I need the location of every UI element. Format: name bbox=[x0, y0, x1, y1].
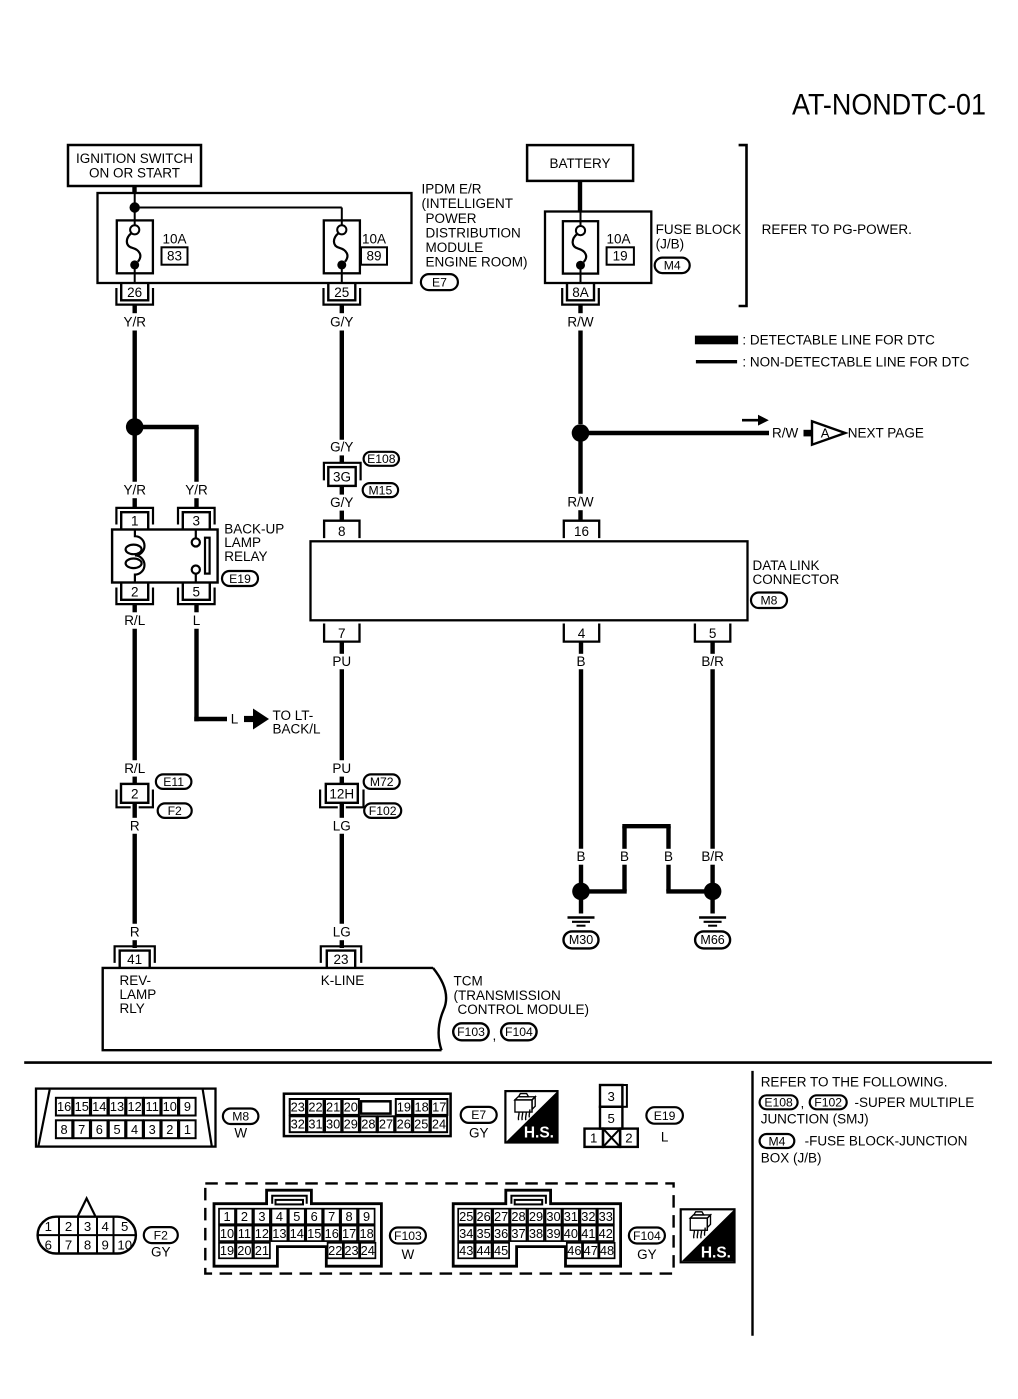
connector oval F2 bbox=[158, 803, 192, 818]
svg-text:REFER TO PG-POWER.: REFER TO PG-POWER. bbox=[762, 222, 912, 237]
ignition switch box bbox=[68, 145, 201, 186]
wire B/R to ground dot bbox=[710, 865, 714, 885]
svg-text:E7: E7 bbox=[471, 1108, 486, 1122]
wire L elbow horizontal bbox=[194, 717, 227, 721]
svg-text:23: 23 bbox=[344, 1243, 358, 1258]
svg-text:LAMP: LAMP bbox=[120, 987, 157, 1002]
svg-text:8: 8 bbox=[61, 1122, 68, 1137]
svg-text:K-LINE: K-LINE bbox=[321, 973, 365, 988]
svg-text:19: 19 bbox=[220, 1243, 234, 1258]
relay terminal 5 bbox=[178, 583, 215, 605]
ground oval M30 bbox=[564, 931, 599, 948]
wire ignition switch to IPDM bbox=[132, 186, 136, 194]
connector oval E19 bbox=[222, 571, 258, 586]
wire LG into terminal 23 bbox=[340, 940, 344, 948]
data link connector box bbox=[311, 541, 748, 620]
svg-text:REV-: REV- bbox=[120, 973, 152, 988]
svg-text:Y/R: Y/R bbox=[123, 483, 146, 498]
connector M8 16-pin drawing bbox=[36, 1089, 216, 1147]
svg-text:G/Y: G/Y bbox=[330, 440, 353, 455]
svg-text:R/W: R/W bbox=[772, 426, 799, 441]
wire G/Y into terminal 8 bbox=[340, 511, 344, 522]
connector E19 socket drawing bbox=[600, 1085, 622, 1107]
off-page triangle A bbox=[812, 421, 845, 444]
svg-text:19: 19 bbox=[613, 248, 628, 263]
svg-text:,: , bbox=[493, 1028, 497, 1043]
svg-text:-SUPER MULTIPLE: -SUPER MULTIPLE bbox=[855, 1095, 975, 1110]
svg-text:GY: GY bbox=[637, 1247, 657, 1262]
inline connector E11/F2 pin 2 bbox=[117, 784, 153, 807]
svg-text:12H: 12H bbox=[329, 786, 354, 801]
svg-text:M15: M15 bbox=[369, 483, 393, 497]
svg-text:GY: GY bbox=[151, 1245, 171, 1260]
svg-text:3: 3 bbox=[149, 1122, 156, 1137]
wire Y/R branch horizontal bbox=[135, 425, 199, 429]
svg-text:E108: E108 bbox=[764, 1096, 793, 1110]
svg-text:47: 47 bbox=[584, 1243, 598, 1258]
svg-text:F2: F2 bbox=[154, 1228, 168, 1242]
svg-text:13: 13 bbox=[272, 1226, 286, 1241]
svg-text:Y/R: Y/R bbox=[123, 315, 146, 330]
svg-text:37: 37 bbox=[511, 1226, 525, 1241]
svg-text:23: 23 bbox=[333, 952, 348, 967]
svg-text:W: W bbox=[234, 1126, 247, 1141]
svg-text:E19: E19 bbox=[654, 1109, 676, 1123]
svg-text:10: 10 bbox=[117, 1238, 132, 1253]
svg-text:32: 32 bbox=[291, 1117, 305, 1132]
svg-text:G/Y: G/Y bbox=[330, 495, 353, 510]
wire B/R down bbox=[710, 669, 714, 849]
svg-text:1: 1 bbox=[590, 1131, 597, 1146]
terminal 16 of DLC bbox=[564, 521, 599, 539]
svg-text:31: 31 bbox=[564, 1209, 578, 1224]
svg-text:F2: F2 bbox=[168, 804, 182, 818]
wire L down bbox=[194, 629, 198, 722]
svg-text:(TRANSMISSION: (TRANSMISSION bbox=[454, 988, 561, 1003]
connector F2 10-pin drawing bbox=[38, 1217, 136, 1254]
svg-text:5: 5 bbox=[113, 1122, 120, 1137]
svg-text:33: 33 bbox=[599, 1209, 613, 1224]
svg-text:(INTELLIGENT: (INTELLIGENT bbox=[422, 196, 514, 211]
terminal 23 bbox=[321, 946, 361, 968]
svg-text:,: , bbox=[801, 1095, 805, 1110]
wire G/Y down bbox=[340, 331, 344, 440]
svg-text:7: 7 bbox=[78, 1122, 85, 1137]
svg-text:44: 44 bbox=[476, 1243, 490, 1258]
svg-text:L: L bbox=[193, 613, 201, 628]
legend detectable bar bbox=[695, 336, 738, 345]
svg-text:31: 31 bbox=[308, 1117, 322, 1132]
svg-text:RLY: RLY bbox=[120, 1001, 145, 1016]
wire L from relay pin 5 bbox=[194, 604, 198, 612]
svg-text:3: 3 bbox=[608, 1089, 615, 1104]
wire fuse 19 to terminal 8A bbox=[580, 268, 582, 283]
svg-text:25: 25 bbox=[459, 1209, 473, 1224]
wire R/W into terminal 16 bbox=[578, 510, 582, 521]
SMJ connector 3G bracket bbox=[324, 463, 361, 481]
svg-text:1: 1 bbox=[45, 1219, 52, 1234]
junction dot Y/R bbox=[126, 418, 144, 436]
wire B/R from terminal 5 bbox=[710, 642, 714, 654]
svg-text:30: 30 bbox=[546, 1209, 560, 1224]
battery box bbox=[527, 145, 633, 181]
connector F103 24-pin drawing bbox=[214, 1190, 381, 1266]
svg-text:11: 11 bbox=[146, 1099, 159, 1114]
svg-text:MODULE: MODULE bbox=[426, 240, 484, 255]
svg-text:5: 5 bbox=[121, 1219, 128, 1234]
wire R/L from relay pin 2 bbox=[132, 604, 136, 612]
fuse 83 box bbox=[117, 220, 153, 273]
svg-text:PU: PU bbox=[332, 654, 351, 669]
svg-text:NEXT PAGE: NEXT PAGE bbox=[848, 426, 924, 441]
svg-text:9: 9 bbox=[102, 1238, 109, 1253]
wire R down bbox=[132, 834, 136, 924]
terminal 4 of DLC bbox=[564, 624, 599, 642]
wire PU down bbox=[340, 669, 344, 760]
connector oval M8 bottom bbox=[223, 1109, 259, 1125]
SMJ connector 3G box bbox=[328, 467, 355, 486]
fuse 19 box bbox=[563, 221, 598, 273]
connector oval E7 bottom bbox=[461, 1107, 497, 1123]
svg-text:F104: F104 bbox=[633, 1229, 661, 1243]
bridge wire right to dot bbox=[666, 865, 670, 892]
svg-text:9: 9 bbox=[184, 1099, 191, 1114]
svg-text:8: 8 bbox=[338, 524, 346, 539]
bridge wire right down bbox=[666, 826, 670, 849]
svg-text:8: 8 bbox=[84, 1238, 91, 1253]
wire PU into connector 12H bbox=[340, 777, 344, 785]
wire Y/R branch down bbox=[194, 427, 198, 482]
relay coil bbox=[135, 530, 145, 583]
svg-text:ENGINE ROOM): ENGINE ROOM) bbox=[426, 255, 528, 270]
svg-text:M4: M4 bbox=[769, 1134, 786, 1148]
svg-text:AT-NONDTC-01: AT-NONDTC-01 bbox=[792, 89, 986, 122]
svg-text:41: 41 bbox=[127, 952, 142, 967]
terminal 41 bbox=[115, 946, 155, 968]
svg-text:13: 13 bbox=[110, 1099, 124, 1114]
svg-text:12: 12 bbox=[255, 1226, 269, 1241]
relay terminal 3 bbox=[178, 508, 215, 530]
svg-text:LG: LG bbox=[333, 818, 351, 833]
svg-text:BACK/L: BACK/L bbox=[273, 721, 322, 736]
svg-text:14: 14 bbox=[92, 1099, 106, 1114]
svg-text:L: L bbox=[661, 1130, 669, 1145]
wire R/W to next page bbox=[581, 431, 770, 435]
svg-text:15: 15 bbox=[75, 1099, 89, 1114]
svg-text:B: B bbox=[576, 654, 585, 669]
svg-text:JUNCTION (SMJ): JUNCTION (SMJ) bbox=[761, 1111, 869, 1126]
next page wire stub bbox=[804, 430, 813, 437]
connector oval E7 bbox=[421, 274, 458, 290]
svg-text:46: 46 bbox=[567, 1243, 581, 1258]
svg-text:1: 1 bbox=[184, 1122, 191, 1137]
svg-text:F102: F102 bbox=[814, 1096, 842, 1110]
svg-text:11: 11 bbox=[238, 1226, 251, 1241]
connector oval E108 bbox=[364, 452, 399, 466]
svg-text:35: 35 bbox=[476, 1226, 490, 1241]
terminal 26 bbox=[116, 283, 153, 305]
relay terminal 1 bbox=[116, 508, 153, 530]
wire R/W junction to DLC bbox=[578, 433, 582, 494]
svg-text:10: 10 bbox=[163, 1099, 177, 1114]
svg-text:32: 32 bbox=[581, 1209, 595, 1224]
svg-text:B/R: B/R bbox=[701, 654, 724, 669]
svg-text:10A: 10A bbox=[163, 232, 187, 247]
svg-text:21: 21 bbox=[326, 1099, 340, 1114]
wire G/Y from terminal 25 bbox=[340, 305, 344, 314]
svg-text:16: 16 bbox=[57, 1099, 71, 1114]
svg-text:26: 26 bbox=[127, 285, 142, 300]
svg-text:30: 30 bbox=[326, 1117, 340, 1132]
svg-text:25: 25 bbox=[414, 1117, 428, 1132]
svg-text:5: 5 bbox=[709, 626, 717, 641]
svg-text:14: 14 bbox=[290, 1226, 304, 1241]
relay terminal 2 bbox=[116, 583, 153, 605]
svg-text:12: 12 bbox=[127, 1099, 141, 1114]
svg-text:41: 41 bbox=[581, 1226, 595, 1241]
fuse 89 box bbox=[324, 220, 360, 273]
ground junction dot M30 bbox=[572, 883, 590, 901]
terminal 5 of DLC bbox=[695, 624, 730, 642]
fuse 19 symbol bbox=[573, 226, 586, 270]
svg-text:4: 4 bbox=[102, 1219, 109, 1234]
svg-text:6: 6 bbox=[96, 1122, 103, 1137]
svg-text:27: 27 bbox=[494, 1209, 508, 1224]
svg-text:F103: F103 bbox=[457, 1025, 485, 1039]
connector oval F104 at TCM bbox=[501, 1023, 536, 1040]
svg-text:FUSE BLOCK: FUSE BLOCK bbox=[656, 222, 742, 237]
IPDM E/R box bbox=[98, 193, 412, 283]
svg-text:REFER TO THE FOLLOWING.: REFER TO THE FOLLOWING. bbox=[761, 1074, 948, 1089]
svg-text:E11: E11 bbox=[163, 775, 184, 789]
svg-text:Y/R: Y/R bbox=[185, 483, 208, 498]
svg-text:CONNECTOR: CONNECTOR bbox=[753, 572, 840, 587]
wire LG below connector bbox=[340, 803, 344, 818]
ground symbol M66 bbox=[699, 918, 726, 926]
wire B from terminal 4 bbox=[579, 642, 583, 654]
H.S. logo bottom bbox=[681, 1209, 735, 1262]
svg-text:R/L: R/L bbox=[124, 761, 146, 776]
connector oval M72 bbox=[364, 774, 400, 789]
svg-text:8A: 8A bbox=[572, 285, 589, 300]
refer bracket bbox=[739, 145, 747, 306]
svg-text:7: 7 bbox=[328, 1209, 335, 1224]
wire R/L into connector E11 bbox=[132, 777, 136, 785]
svg-text:17: 17 bbox=[432, 1099, 446, 1114]
H.S. logo top bbox=[505, 1091, 557, 1142]
svg-text:BOX (J/B): BOX (J/B) bbox=[761, 1151, 822, 1166]
svg-text:18: 18 bbox=[359, 1226, 373, 1241]
dashed group box bbox=[205, 1183, 673, 1273]
svg-text:F102: F102 bbox=[369, 804, 397, 818]
svg-text:B: B bbox=[576, 849, 585, 864]
svg-text:M66: M66 bbox=[700, 933, 724, 947]
terminal 25 bbox=[324, 283, 361, 305]
wire R/L down bbox=[132, 629, 136, 761]
separator line bbox=[24, 1061, 992, 1064]
svg-text:IGNITION SWITCH: IGNITION SWITCH bbox=[76, 151, 193, 166]
svg-text:2: 2 bbox=[131, 584, 139, 599]
svg-text:PU: PU bbox=[332, 761, 351, 776]
svg-text:22: 22 bbox=[308, 1099, 322, 1114]
wire G/Y below SMJ bbox=[340, 486, 344, 495]
connector oval F102 bbox=[364, 803, 401, 818]
svg-text:25: 25 bbox=[334, 285, 349, 300]
wire Y/R branch into pin 3 bbox=[194, 498, 198, 508]
svg-text:DISTRIBUTION: DISTRIBUTION bbox=[426, 225, 521, 240]
wire B down bbox=[579, 669, 583, 849]
TCM box bbox=[103, 968, 446, 1050]
bridge wire left down bbox=[622, 826, 626, 849]
svg-text:2: 2 bbox=[166, 1122, 173, 1137]
svg-text:CONTROL MODULE): CONTROL MODULE) bbox=[458, 1002, 590, 1017]
svg-text:8: 8 bbox=[346, 1209, 353, 1224]
arrow to LT-BACK/L bbox=[244, 716, 254, 722]
inline connector M72/F102 pin 12H bbox=[320, 784, 363, 807]
svg-text:LG: LG bbox=[333, 925, 351, 940]
svg-text:F104: F104 bbox=[505, 1025, 533, 1039]
svg-text:34: 34 bbox=[459, 1226, 473, 1241]
svg-text:7: 7 bbox=[338, 626, 346, 641]
svg-text:G/Y: G/Y bbox=[330, 315, 353, 330]
ground symbol M30 bbox=[568, 918, 595, 926]
svg-text:16: 16 bbox=[325, 1226, 339, 1241]
svg-text:R: R bbox=[130, 925, 140, 940]
vertical divider line bbox=[751, 1071, 753, 1336]
ground stub M30 bbox=[579, 891, 583, 913]
bridge wire left to dot bbox=[622, 865, 626, 892]
svg-text:3: 3 bbox=[84, 1219, 91, 1234]
wire down to fuse 89 bbox=[341, 208, 343, 226]
value box 83 bbox=[162, 247, 188, 264]
svg-text:TCM: TCM bbox=[454, 974, 483, 989]
wire R into terminal 41 bbox=[132, 940, 136, 948]
value box 89 bbox=[361, 247, 387, 264]
svg-text:40: 40 bbox=[564, 1226, 578, 1241]
terminal 8 of DLC bbox=[324, 521, 359, 539]
connector E7 32-pin drawing bbox=[284, 1094, 451, 1136]
svg-text:M30: M30 bbox=[569, 933, 593, 947]
junction dot inside IPDM bbox=[130, 202, 140, 212]
svg-text:1: 1 bbox=[223, 1209, 230, 1224]
svg-text:22: 22 bbox=[328, 1243, 342, 1258]
svg-text:4: 4 bbox=[131, 1122, 138, 1137]
svg-text:2: 2 bbox=[625, 1131, 632, 1146]
wire fuse 83 to terminal 26 bbox=[134, 268, 136, 283]
svg-text:(J/B): (J/B) bbox=[656, 236, 685, 251]
svg-text:24: 24 bbox=[361, 1243, 375, 1258]
svg-text:DATA LINK: DATA LINK bbox=[753, 558, 820, 573]
wire junction to fuse 83 bbox=[134, 212, 136, 225]
svg-text:38: 38 bbox=[529, 1226, 543, 1241]
wire Y/R junction to relay pin 1 bbox=[132, 427, 136, 482]
ground stub M66 bbox=[710, 891, 714, 913]
svg-text:R/L: R/L bbox=[124, 613, 146, 628]
connector oval M4 bbox=[655, 258, 690, 274]
svg-text:17: 17 bbox=[342, 1226, 356, 1241]
svg-text:1: 1 bbox=[131, 514, 139, 529]
svg-text:4: 4 bbox=[578, 626, 586, 641]
wire PU from terminal 7 bbox=[340, 642, 344, 654]
wire B to ground dot bbox=[579, 865, 583, 885]
svg-text:E7: E7 bbox=[432, 275, 447, 289]
svg-text:POWER: POWER bbox=[426, 211, 477, 226]
wire battery into fuse bbox=[580, 212, 582, 227]
svg-text:M8: M8 bbox=[232, 1110, 249, 1124]
wire Y/R to junction bbox=[132, 331, 136, 428]
wire R below connector bbox=[132, 803, 136, 818]
svg-text:F103: F103 bbox=[394, 1229, 422, 1243]
svg-text:4: 4 bbox=[276, 1209, 283, 1224]
svg-text:: DETECTABLE LINE FOR DTC: : DETECTABLE LINE FOR DTC bbox=[742, 333, 935, 348]
svg-text:M72: M72 bbox=[370, 775, 394, 789]
svg-text:E19: E19 bbox=[229, 572, 251, 586]
terminal 7 of DLC bbox=[324, 624, 359, 642]
wire G/Y into SMJ bbox=[340, 455, 344, 463]
svg-text:H.S.: H.S. bbox=[524, 1125, 554, 1142]
wire R/W to junction bbox=[578, 331, 582, 425]
svg-text:R/W: R/W bbox=[567, 315, 594, 330]
connector oval F2 bottom bbox=[144, 1227, 178, 1243]
ground junction dot M66 bbox=[704, 883, 722, 901]
ground oval M66 bbox=[695, 931, 730, 948]
wire battery to fuse block bbox=[578, 181, 582, 212]
svg-text:20: 20 bbox=[237, 1243, 251, 1258]
svg-text:21: 21 bbox=[255, 1243, 269, 1258]
svg-text:15: 15 bbox=[307, 1226, 321, 1241]
svg-text:23: 23 bbox=[291, 1099, 305, 1114]
svg-text:A: A bbox=[821, 426, 830, 441]
svg-text:36: 36 bbox=[494, 1226, 508, 1241]
svg-text:10A: 10A bbox=[607, 232, 631, 247]
svg-text:3: 3 bbox=[258, 1209, 265, 1224]
connector oval M8 bbox=[751, 593, 787, 609]
svg-text:43: 43 bbox=[459, 1243, 473, 1258]
svg-text:20: 20 bbox=[344, 1099, 358, 1114]
svg-text:26: 26 bbox=[476, 1209, 490, 1224]
connector oval E19 bottom bbox=[646, 1107, 683, 1124]
terminal 8A bbox=[562, 283, 599, 305]
svg-text:27: 27 bbox=[379, 1117, 393, 1132]
svg-text:GY: GY bbox=[469, 1126, 489, 1141]
junction dot R/W bbox=[572, 424, 590, 442]
svg-text:R/W: R/W bbox=[567, 495, 594, 510]
svg-text:5: 5 bbox=[193, 584, 201, 599]
connector oval F103 at TCM bbox=[453, 1023, 489, 1040]
svg-text:10A: 10A bbox=[362, 232, 386, 247]
next page direction arrow bbox=[742, 419, 759, 422]
svg-text:L: L bbox=[231, 712, 239, 727]
svg-text:16: 16 bbox=[574, 524, 589, 539]
svg-text:2: 2 bbox=[65, 1219, 72, 1234]
connector oval M15 bbox=[363, 483, 398, 497]
svg-text:19: 19 bbox=[397, 1099, 411, 1114]
svg-text:28: 28 bbox=[361, 1117, 375, 1132]
legend non-detectable bar bbox=[696, 360, 737, 363]
svg-text:39: 39 bbox=[546, 1226, 560, 1241]
svg-text:42: 42 bbox=[599, 1226, 613, 1241]
connector oval M4 note bbox=[760, 1134, 795, 1148]
svg-text:: NON-DETECTABLE LINE FOR DTC: : NON-DETECTABLE LINE FOR DTC bbox=[742, 354, 969, 369]
svg-text:3: 3 bbox=[193, 514, 201, 529]
svg-text:6: 6 bbox=[45, 1238, 52, 1253]
connector oval E108 note bbox=[760, 1095, 798, 1109]
svg-text:24: 24 bbox=[432, 1117, 446, 1132]
svg-text:E108: E108 bbox=[367, 452, 396, 466]
fuse 83 symbol bbox=[127, 225, 140, 269]
svg-text:B/R: B/R bbox=[701, 849, 724, 864]
svg-text:M8: M8 bbox=[761, 594, 778, 608]
